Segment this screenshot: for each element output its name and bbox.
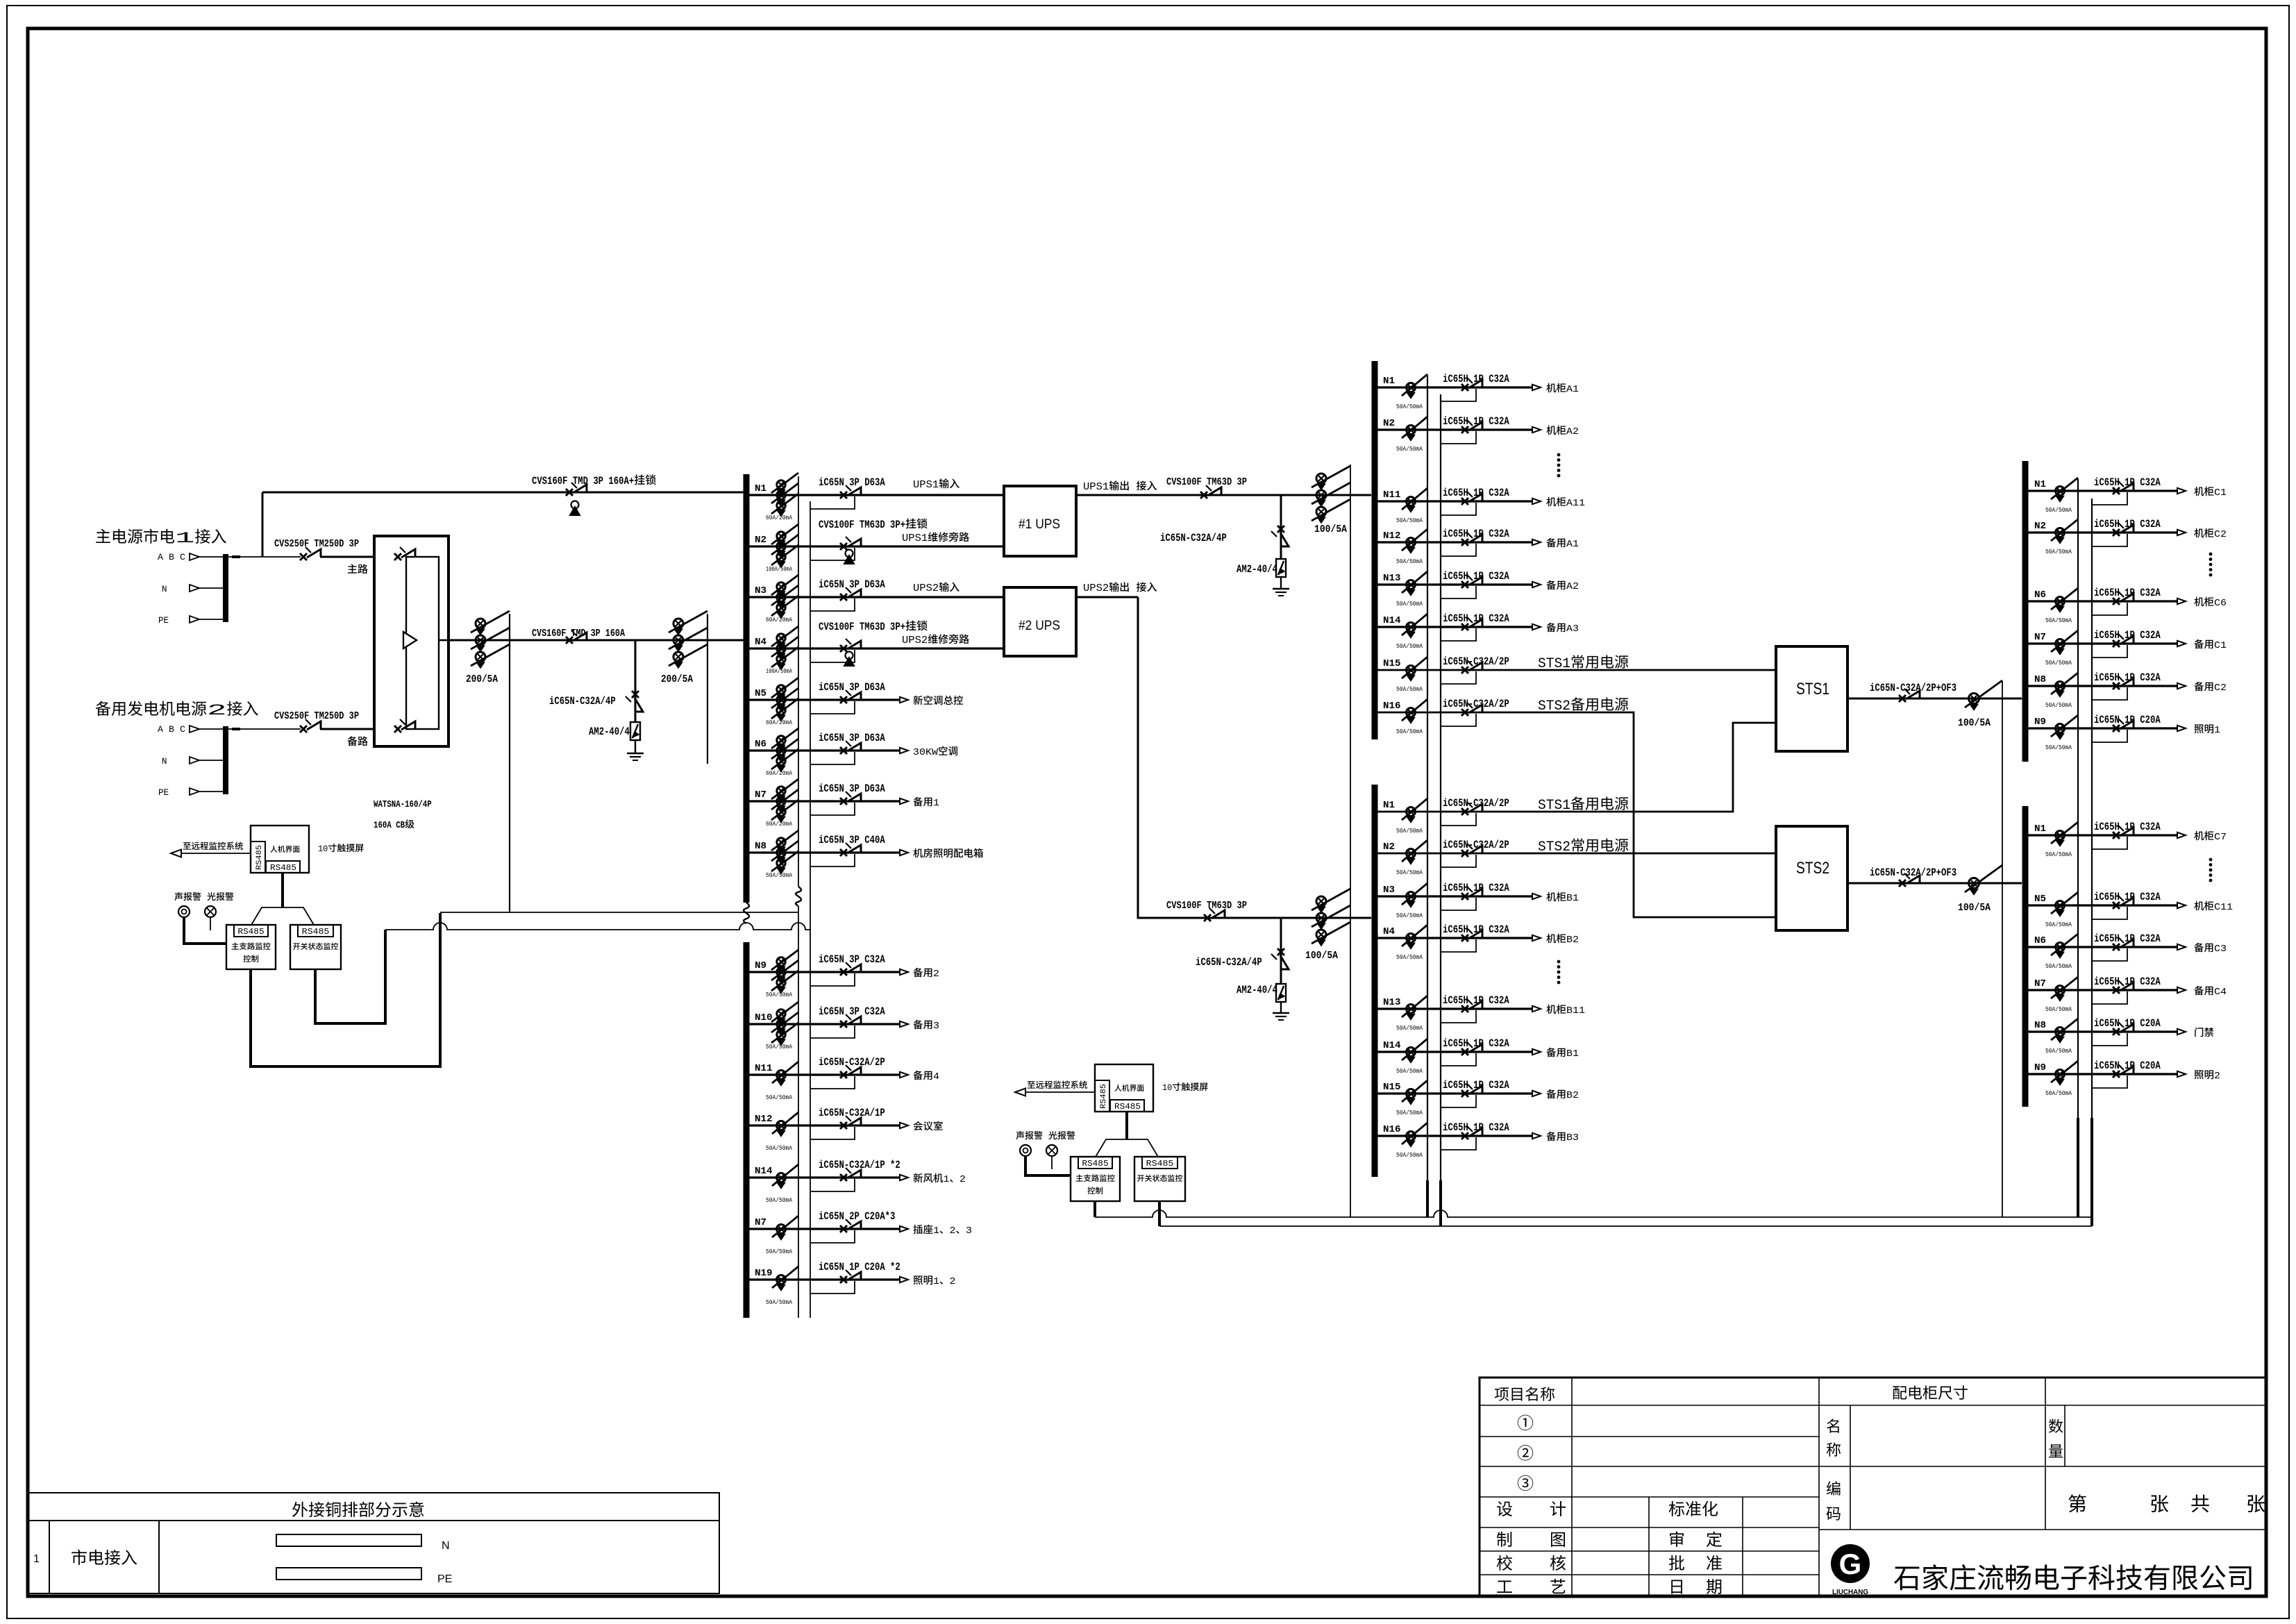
svg-text:iC65H 1P C32A: iC65H 1P C32A bbox=[1443, 373, 1509, 385]
svg-text:N6: N6 bbox=[755, 739, 766, 750]
svg-text:N19: N19 bbox=[755, 1269, 773, 1279]
svg-text:50A/50mA: 50A/50mA bbox=[1396, 403, 1423, 410]
svg-text:WATSNA-160/4P: WATSNA-160/4P bbox=[374, 799, 432, 810]
svg-text:iC65N-C32A/2P: iC65N-C32A/2P bbox=[1443, 839, 1509, 851]
svg-text:1: 1 bbox=[933, 1276, 939, 1287]
svg-text:iC65N 3P C32A: iC65N 3P C32A bbox=[819, 953, 885, 966]
svg-text:N7: N7 bbox=[755, 1218, 766, 1228]
svg-text:iC65N 3P D63A: iC65N 3P D63A bbox=[819, 782, 885, 795]
svg-text:1: 1 bbox=[175, 529, 195, 547]
svg-text:iC65H 1P C32A: iC65H 1P C32A bbox=[1443, 612, 1509, 625]
svg-text:100A/50mA: 100A/50mA bbox=[766, 667, 792, 675]
svg-text:N2: N2 bbox=[1383, 842, 1395, 853]
svg-text:N11: N11 bbox=[1383, 490, 1401, 501]
svg-text:iC65N 3P D63A: iC65N 3P D63A bbox=[819, 681, 885, 694]
svg-text:50A/50mA: 50A/50mA bbox=[1396, 1067, 1423, 1075]
svg-text:C7: C7 bbox=[2214, 832, 2227, 843]
svg-text:A B C: A B C bbox=[158, 725, 185, 735]
svg-text:C2: C2 bbox=[2214, 529, 2227, 540]
svg-text:2: 2 bbox=[949, 1276, 955, 1287]
svg-text:iC65N-C32A/2P+OF3: iC65N-C32A/2P+OF3 bbox=[1870, 867, 1956, 879]
svg-text:RS485: RS485 bbox=[270, 864, 296, 873]
svg-text:N3: N3 bbox=[755, 586, 766, 596]
svg-text:10: 10 bbox=[318, 844, 328, 854]
svg-text:iC65N-C32A/4P: iC65N-C32A/4P bbox=[1160, 532, 1227, 544]
svg-text:iC65H 1P C32A: iC65H 1P C32A bbox=[2094, 671, 2161, 684]
svg-text:C1: C1 bbox=[2214, 487, 2227, 499]
svg-text:50A/50mA: 50A/50mA bbox=[1396, 1109, 1423, 1116]
svg-text:N9: N9 bbox=[2034, 717, 2046, 728]
svg-text:iC65H 1P C32A: iC65H 1P C32A bbox=[1443, 1079, 1509, 1091]
svg-text:iC65N 1P C20A: iC65N 1P C20A bbox=[2094, 1017, 2161, 1030]
svg-text:iC65N 3P D63A: iC65N 3P D63A bbox=[819, 476, 885, 489]
svg-text:CVS100F TM63D 3P+: CVS100F TM63D 3P+ bbox=[819, 519, 905, 531]
svg-text:N13: N13 bbox=[1383, 998, 1401, 1008]
svg-text:N1: N1 bbox=[1383, 376, 1395, 387]
svg-text:C6: C6 bbox=[2214, 598, 2227, 609]
svg-text:N14: N14 bbox=[755, 1166, 773, 1177]
svg-text:50A/50mA: 50A/50mA bbox=[2045, 851, 2072, 858]
svg-text:60A/20mA: 60A/20mA bbox=[766, 769, 792, 777]
svg-text:PE: PE bbox=[158, 616, 169, 626]
svg-text:50A/50mA: 50A/50mA bbox=[2045, 659, 2072, 667]
svg-text:2: 2 bbox=[207, 701, 227, 719]
svg-text:C1: C1 bbox=[2214, 640, 2227, 651]
svg-text:50A/50mA: 50A/50mA bbox=[2045, 921, 2072, 928]
svg-text:AM2-40/4: AM2-40/4 bbox=[589, 726, 630, 738]
svg-text:N8: N8 bbox=[755, 842, 766, 852]
svg-text:UPS2: UPS2 bbox=[913, 583, 939, 594]
svg-text:STS1: STS1 bbox=[1538, 798, 1570, 814]
svg-text:200/5A: 200/5A bbox=[661, 674, 693, 685]
svg-text:N2: N2 bbox=[2034, 521, 2046, 532]
svg-text:N7: N7 bbox=[755, 790, 766, 801]
svg-text:N6: N6 bbox=[2034, 590, 2046, 601]
svg-text:1: 1 bbox=[933, 798, 939, 809]
svg-text:iC65H 1P C32A: iC65H 1P C32A bbox=[2094, 932, 2161, 945]
svg-text:iC65N-C32A/2P: iC65N-C32A/2P bbox=[819, 1056, 885, 1069]
svg-text:N7: N7 bbox=[2034, 633, 2046, 643]
svg-text:50A/50mA: 50A/50mA bbox=[766, 991, 792, 998]
svg-text:CVS250F TM250D 3P: CVS250F TM250D 3P bbox=[274, 711, 359, 722]
svg-text:iC65N 1P C20A: iC65N 1P C20A bbox=[2094, 714, 2161, 726]
svg-text:RS485: RS485 bbox=[1114, 1103, 1141, 1112]
svg-text:#1 UPS: #1 UPS bbox=[1019, 517, 1060, 532]
svg-text:50A/50mA: 50A/50mA bbox=[2045, 548, 2072, 555]
svg-text:N8: N8 bbox=[2034, 675, 2046, 685]
svg-text:iC65N-C32A/2P+OF3: iC65N-C32A/2P+OF3 bbox=[1870, 682, 1956, 694]
svg-text:N16: N16 bbox=[1383, 701, 1401, 712]
svg-text:1: 1 bbox=[2214, 725, 2220, 736]
svg-text:3: 3 bbox=[966, 1225, 972, 1237]
svg-text:PE: PE bbox=[437, 1573, 452, 1585]
svg-text:N12: N12 bbox=[755, 1114, 773, 1125]
svg-text:60A/20mA: 60A/20mA bbox=[766, 514, 792, 521]
svg-text:100/5A: 100/5A bbox=[1958, 902, 1991, 914]
svg-text:iC65H 1P C32A: iC65H 1P C32A bbox=[1443, 570, 1509, 583]
svg-text:STS2: STS2 bbox=[1796, 859, 1829, 878]
svg-text:N3: N3 bbox=[1383, 885, 1395, 896]
svg-text:50A/50mA: 50A/50mA bbox=[766, 1094, 792, 1101]
svg-text:RS485: RS485 bbox=[237, 928, 264, 937]
svg-text:B2: B2 bbox=[1566, 935, 1579, 946]
svg-text:50A/50mA: 50A/50mA bbox=[766, 871, 792, 879]
svg-text:N14: N14 bbox=[1383, 1041, 1401, 1051]
svg-text:30KW: 30KW bbox=[913, 747, 938, 758]
svg-text:50A/50mA: 50A/50mA bbox=[1396, 869, 1423, 876]
svg-text:10: 10 bbox=[1162, 1082, 1172, 1093]
svg-text:50A/50mA: 50A/50mA bbox=[2045, 744, 2072, 751]
svg-text:UPS1: UPS1 bbox=[1083, 482, 1109, 493]
svg-text:50A/50mA: 50A/50mA bbox=[1396, 1024, 1423, 1032]
svg-text:N7: N7 bbox=[2034, 979, 2046, 989]
svg-text:iC65H 1P C32A: iC65H 1P C32A bbox=[2094, 821, 2161, 833]
svg-text:CVS100F TM63D 3P: CVS100F TM63D 3P bbox=[1166, 901, 1247, 912]
svg-text:50A/50mA: 50A/50mA bbox=[1396, 912, 1423, 919]
svg-text:iC65H 1P C32A: iC65H 1P C32A bbox=[2094, 476, 2161, 489]
svg-text:iC65N-C32A/2P: iC65N-C32A/2P bbox=[1443, 698, 1509, 710]
svg-text:RS485: RS485 bbox=[302, 928, 330, 937]
svg-text:N12: N12 bbox=[1383, 531, 1401, 542]
svg-text:iC65H 1P C32A: iC65H 1P C32A bbox=[2094, 518, 2161, 530]
svg-text:iC65H 1P C32A: iC65H 1P C32A bbox=[1443, 487, 1509, 499]
svg-text:UPS1: UPS1 bbox=[902, 533, 928, 544]
svg-text:2: 2 bbox=[949, 1225, 955, 1237]
svg-text:iC65H 1P C32A: iC65H 1P C32A bbox=[1443, 1121, 1509, 1134]
svg-text:C3: C3 bbox=[2214, 944, 2227, 955]
svg-text:50A/50mA: 50A/50mA bbox=[1396, 642, 1423, 650]
svg-text:N9: N9 bbox=[2034, 1063, 2046, 1073]
svg-text:STS2: STS2 bbox=[1538, 839, 1570, 855]
svg-text:RS485: RS485 bbox=[255, 845, 264, 870]
svg-text:N13: N13 bbox=[1383, 574, 1401, 584]
svg-text:N4: N4 bbox=[1383, 927, 1395, 937]
svg-text:iC65H 1P C32A: iC65H 1P C32A bbox=[1443, 923, 1509, 936]
svg-text:2: 2 bbox=[933, 969, 939, 980]
svg-text:200/5A: 200/5A bbox=[466, 674, 498, 685]
svg-text:A11: A11 bbox=[1566, 498, 1585, 509]
svg-text:50A/50mA: 50A/50mA bbox=[766, 1196, 792, 1204]
svg-text:50A/50mA: 50A/50mA bbox=[2045, 617, 2072, 624]
svg-text:50A/50mA: 50A/50mA bbox=[1396, 558, 1423, 565]
svg-text:1: 1 bbox=[33, 1553, 40, 1565]
svg-text:iC65N-C32A/1P: iC65N-C32A/1P bbox=[819, 1107, 885, 1119]
svg-text:iC65N 3P C32A: iC65N 3P C32A bbox=[819, 1005, 885, 1018]
svg-text:UPS2: UPS2 bbox=[902, 635, 928, 646]
svg-text:iC65N 1P C20A *2: iC65N 1P C20A *2 bbox=[819, 1261, 900, 1273]
svg-text:N: N bbox=[442, 1540, 450, 1552]
svg-text:iC65H 1P C32A: iC65H 1P C32A bbox=[2094, 629, 2161, 642]
svg-text:B1: B1 bbox=[1566, 893, 1579, 904]
svg-text:iC65H 1P C32A: iC65H 1P C32A bbox=[2094, 976, 2161, 988]
svg-text:UPS2: UPS2 bbox=[1083, 583, 1109, 594]
svg-text:iC65N 3P D63A: iC65N 3P D63A bbox=[819, 732, 885, 744]
svg-text:C2: C2 bbox=[2214, 683, 2227, 694]
svg-text:60A/20mA: 60A/20mA bbox=[766, 820, 792, 828]
svg-text:CVS160F TMD 3P 160A+: CVS160F TMD 3P 160A+ bbox=[532, 475, 634, 487]
svg-text:2: 2 bbox=[2214, 1071, 2220, 1082]
svg-text:RS485: RS485 bbox=[1146, 1160, 1174, 1169]
svg-text:N10: N10 bbox=[755, 1013, 773, 1023]
svg-text:G: G bbox=[1839, 1548, 1862, 1580]
svg-text:A2: A2 bbox=[1566, 581, 1579, 592]
svg-text:iC65N 2P C20A*3: iC65N 2P C20A*3 bbox=[819, 1210, 895, 1223]
svg-text:STS2: STS2 bbox=[1538, 698, 1570, 714]
svg-text:STS1: STS1 bbox=[1796, 680, 1829, 698]
svg-text:4: 4 bbox=[933, 1071, 939, 1082]
svg-text:60A/20mA: 60A/20mA bbox=[766, 719, 792, 726]
svg-text:N1: N1 bbox=[755, 484, 766, 494]
svg-text:100/5A: 100/5A bbox=[1305, 950, 1338, 962]
svg-text:RS485: RS485 bbox=[1082, 1160, 1108, 1169]
svg-text:1: 1 bbox=[944, 1174, 950, 1185]
svg-text:50A/50mA: 50A/50mA bbox=[1396, 728, 1423, 735]
svg-text:A1: A1 bbox=[1566, 539, 1579, 550]
svg-text:50A/50mA: 50A/50mA bbox=[766, 1248, 792, 1255]
svg-text:50A/50mA: 50A/50mA bbox=[2045, 701, 2072, 709]
svg-text:iC65N 1P C20A: iC65N 1P C20A bbox=[2094, 1060, 2161, 1072]
svg-text:B11: B11 bbox=[1566, 1005, 1585, 1016]
svg-text:iC65H 1P C32A: iC65H 1P C32A bbox=[1443, 994, 1509, 1007]
svg-text:iC65H 1P C32A: iC65H 1P C32A bbox=[1443, 882, 1509, 894]
svg-text:50A/50mA: 50A/50mA bbox=[1396, 1151, 1423, 1159]
svg-text:N4: N4 bbox=[755, 637, 766, 648]
svg-text:50A/50mA: 50A/50mA bbox=[2045, 962, 2072, 970]
svg-text:100A/50mA: 100A/50mA bbox=[766, 565, 792, 573]
svg-text:N1: N1 bbox=[1383, 801, 1395, 811]
svg-text:iC65N-C32A/1P *2: iC65N-C32A/1P *2 bbox=[819, 1159, 900, 1171]
svg-text:50A/50mA: 50A/50mA bbox=[1396, 685, 1423, 693]
svg-text:UPS1: UPS1 bbox=[913, 480, 939, 491]
svg-text:N16: N16 bbox=[1383, 1125, 1401, 1135]
svg-text:iC65H 1P C32A: iC65H 1P C32A bbox=[2094, 891, 2161, 903]
svg-text:50A/50mA: 50A/50mA bbox=[766, 1144, 792, 1152]
svg-text:50A/50mA: 50A/50mA bbox=[766, 1298, 792, 1306]
svg-text:CVS250F TM250D 3P: CVS250F TM250D 3P bbox=[274, 539, 359, 550]
svg-text:N15: N15 bbox=[1383, 1082, 1401, 1093]
svg-text:N: N bbox=[162, 585, 167, 594]
svg-text:60A/20mA: 60A/20mA bbox=[766, 616, 792, 623]
svg-text:C4: C4 bbox=[2214, 987, 2227, 998]
svg-text:PE: PE bbox=[158, 788, 169, 798]
svg-text:N6: N6 bbox=[2034, 936, 2046, 946]
svg-text:RS485: RS485 bbox=[1100, 1084, 1108, 1109]
svg-text:iC65H 1P C32A: iC65H 1P C32A bbox=[2094, 587, 2161, 599]
svg-text:50A/50mA: 50A/50mA bbox=[766, 1043, 792, 1050]
svg-text:50A/50mA: 50A/50mA bbox=[1396, 827, 1423, 835]
svg-text:2: 2 bbox=[960, 1174, 966, 1185]
svg-text:iC65N 3P C40A: iC65N 3P C40A bbox=[819, 834, 885, 846]
svg-text:50A/50mA: 50A/50mA bbox=[1396, 445, 1423, 453]
svg-text:iC65N 3P D63A: iC65N 3P D63A bbox=[819, 578, 885, 591]
svg-text:100/5A: 100/5A bbox=[1958, 717, 1991, 729]
svg-text:N14: N14 bbox=[1383, 616, 1401, 626]
svg-text:iC65N-C32A/4P: iC65N-C32A/4P bbox=[549, 695, 616, 708]
svg-text:N15: N15 bbox=[1383, 659, 1401, 669]
svg-text:#2 UPS: #2 UPS bbox=[1019, 619, 1060, 633]
svg-text:iC65N-C32A/2P: iC65N-C32A/2P bbox=[1443, 655, 1509, 668]
svg-text:50A/50mA: 50A/50mA bbox=[2045, 506, 2072, 514]
svg-text:N9: N9 bbox=[755, 961, 766, 971]
svg-text:50A/50mA: 50A/50mA bbox=[2045, 1005, 2072, 1013]
svg-text:iC65H 1P C32A: iC65H 1P C32A bbox=[1443, 528, 1509, 540]
svg-text:50A/50mA: 50A/50mA bbox=[1396, 600, 1423, 608]
svg-text:AM2-40/4: AM2-40/4 bbox=[1237, 563, 1277, 576]
svg-text:LIUCHANG: LIUCHANG bbox=[1832, 1589, 1868, 1596]
svg-text:N5: N5 bbox=[2034, 894, 2046, 905]
svg-text:iC65N-C32A/4P: iC65N-C32A/4P bbox=[1196, 956, 1262, 969]
svg-text:N11: N11 bbox=[755, 1064, 773, 1074]
svg-text:B2: B2 bbox=[1566, 1090, 1579, 1101]
svg-text:N: N bbox=[162, 757, 167, 767]
svg-text:N2: N2 bbox=[755, 535, 766, 546]
svg-text:A2: A2 bbox=[1566, 426, 1579, 437]
svg-text:N1: N1 bbox=[2034, 480, 2046, 490]
svg-text:AM2-40/4: AM2-40/4 bbox=[1237, 984, 1277, 996]
svg-text:50A/50mA: 50A/50mA bbox=[1396, 953, 1423, 961]
svg-text:3: 3 bbox=[933, 1021, 939, 1032]
svg-text:N1: N1 bbox=[2034, 824, 2046, 835]
svg-text:N8: N8 bbox=[2034, 1021, 2046, 1031]
svg-text:N2: N2 bbox=[1383, 419, 1395, 429]
svg-text:iC65N-C32A/2P: iC65N-C32A/2P bbox=[1443, 797, 1509, 810]
svg-text:CVS100F TM63D 3P+: CVS100F TM63D 3P+ bbox=[819, 621, 905, 633]
svg-text:N5: N5 bbox=[755, 689, 766, 699]
svg-text:B3: B3 bbox=[1566, 1132, 1579, 1144]
svg-text:iC65H 1P C32A: iC65H 1P C32A bbox=[1443, 415, 1509, 428]
svg-text:B1: B1 bbox=[1566, 1048, 1579, 1060]
svg-text:50A/50mA: 50A/50mA bbox=[2045, 1089, 2072, 1097]
svg-text:A B C: A B C bbox=[158, 553, 185, 562]
svg-text:160A CB: 160A CB bbox=[374, 821, 405, 831]
svg-text:A1: A1 bbox=[1566, 384, 1579, 395]
svg-text:A3: A3 bbox=[1566, 623, 1579, 635]
svg-text:50A/50mA: 50A/50mA bbox=[2045, 1047, 2072, 1055]
svg-text:C11: C11 bbox=[2214, 902, 2233, 913]
svg-text:iC65H 1P C32A: iC65H 1P C32A bbox=[1443, 1037, 1509, 1050]
svg-text:50A/50mA: 50A/50mA bbox=[1396, 517, 1423, 524]
svg-text:1: 1 bbox=[933, 1225, 939, 1237]
svg-text:100/5A: 100/5A bbox=[1314, 524, 1347, 535]
svg-text:STS1: STS1 bbox=[1538, 656, 1570, 672]
